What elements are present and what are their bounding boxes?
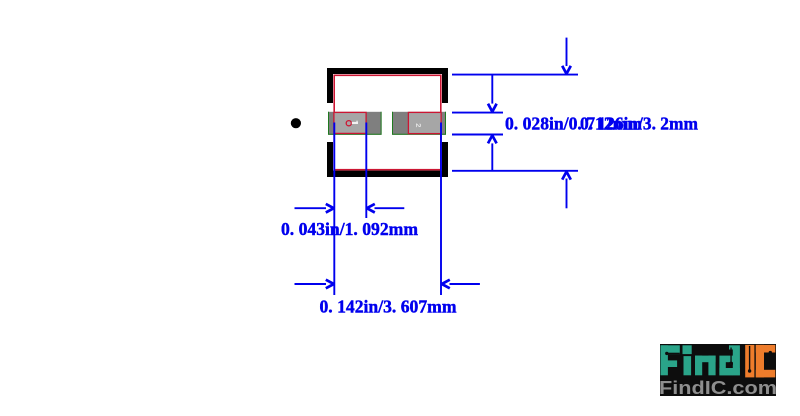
dimension extension line v1 [333,123,335,296]
pad 2 terminal green edges [392,112,446,135]
height extension line h4 [452,170,578,172]
dimension extension line v2 [365,123,367,219]
FindIC logo background [660,344,776,396]
pad height dim arrow upper [488,75,497,112]
pad width dim leader left [295,204,334,213]
svg-text:0. 126in/3. 2mm: 0. 126in/3. 2mm [580,113,698,133]
package body outline (black silkscreen) [327,68,448,177]
logo Find circuit cutouts (black) [665,348,733,376]
logo IC circuit cutouts (black) [748,346,772,373]
pad width dim leader right [367,204,405,213]
pad 1 land (red outline) [334,112,366,133]
pin 1 orientation dot [291,118,301,128]
overall height dim arrow top [562,38,571,74]
overall width dim leader right [442,280,480,289]
pin 1 marker circle [346,121,351,126]
logo word IC (orange) [745,345,775,378]
pad height dim arrow lower [488,135,497,170]
height extension line h1 [452,74,578,76]
height extension line h3 [452,134,503,136]
svg-text:2: 2 [414,123,423,127]
pad 1 terminal (gray) [328,112,382,135]
body right bar lower [442,142,448,177]
pad 2 land (red outline) [408,112,441,133]
height extension line h2 [452,112,503,114]
pin 1 label [352,122,358,124]
body right bar upper [442,68,448,103]
svg-text:0. 142in/3. 607mm: 0. 142in/3. 607mm [320,296,457,316]
svg-text:0. 043in/1. 092mm: 0. 043in/1. 092mm [281,219,418,239]
body top bar [327,68,448,74]
courtyard red rectangle [334,75,441,169]
logo word Find (teal) [661,345,740,375]
body bottom bar [327,171,448,177]
pad 1 terminal green edges [328,112,382,135]
svg-text:FindIC.com: FindIC.com [659,378,777,398]
overall height dim arrow bottom [562,172,571,209]
overall width dim leader left [295,280,334,289]
pad 2 terminal (gray) [392,112,446,135]
body left bar upper [327,68,333,103]
body left bar lower [327,142,333,177]
dimension extension line v3 [440,123,442,296]
